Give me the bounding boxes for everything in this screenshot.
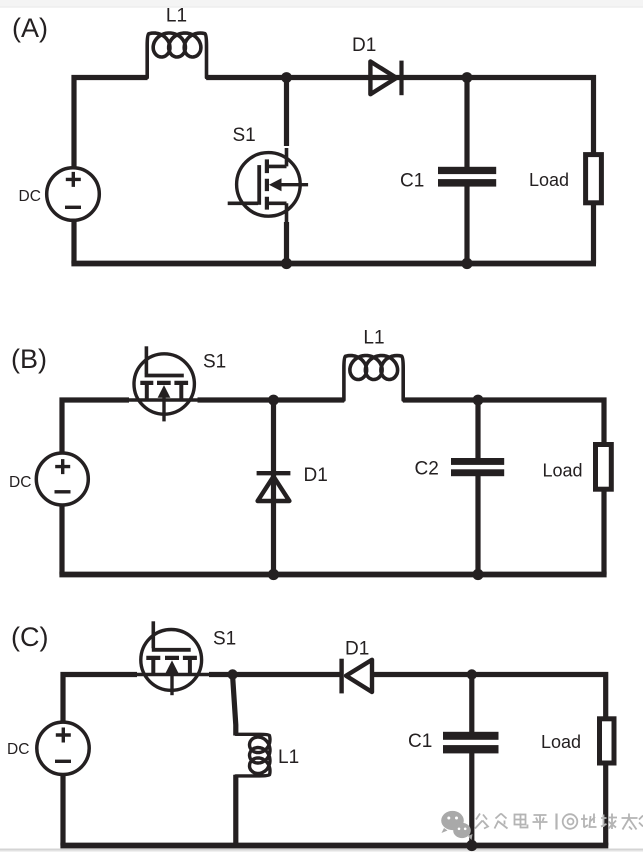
wire A top-left rail xyxy=(74,78,148,171)
svg-text:L1: L1 xyxy=(363,328,384,349)
wire B C2 bottom branch xyxy=(475,476,480,575)
svg-text:S1: S1 xyxy=(213,629,236,650)
S1A channel segments xyxy=(265,159,269,209)
svg-text:(B): (B) xyxy=(11,344,47,374)
S1B gate lead xyxy=(145,346,149,374)
svg-text:D1: D1 xyxy=(352,35,376,56)
S1C gate lead xyxy=(152,621,156,648)
svg-text:L1: L1 xyxy=(278,747,299,768)
node dots B xyxy=(268,395,484,581)
load resistor (C) xyxy=(600,719,615,763)
inductor L1 (B) xyxy=(344,356,403,401)
wire A C1 bottom branch xyxy=(464,187,469,264)
wire A bottom rail xyxy=(71,261,596,267)
transistor S1 (C) MOSFET xyxy=(137,621,211,695)
watermark wechat icon xyxy=(441,811,472,840)
S1C channel segments xyxy=(146,656,197,660)
transistor S1 (B) MOSFET xyxy=(125,346,200,421)
wire B top-left rail xyxy=(62,400,129,455)
transistor S1 (A) MOSFET xyxy=(228,148,308,222)
S1C wire chord xyxy=(137,673,211,677)
diode D1 (C) xyxy=(342,659,372,694)
DC source (C) xyxy=(37,722,89,774)
inductor L1 (A) xyxy=(147,33,206,78)
svg-text:D1: D1 xyxy=(345,639,369,660)
load resistor (B) xyxy=(596,445,612,490)
S1C body arrow xyxy=(170,669,173,695)
svg-text:D1: D1 xyxy=(304,465,328,486)
diode D1 (A) xyxy=(370,61,401,96)
wire C C1 top branch xyxy=(469,675,474,733)
wire B bottom rail xyxy=(59,572,606,578)
svg-text:DC: DC xyxy=(9,474,31,491)
wire A top wire inductor to right xyxy=(206,75,596,80)
labels A xyxy=(12,6,569,205)
S1A body arrow xyxy=(278,183,308,186)
wire A right rail xyxy=(591,75,596,264)
bottom page band xyxy=(0,849,643,851)
S1A gate bar xyxy=(257,165,261,205)
capacitor C1 (A) xyxy=(438,167,496,187)
S1B drain finger xyxy=(145,383,149,400)
top page band xyxy=(0,0,643,7)
svg-text:C2: C2 xyxy=(415,459,439,480)
wire C top wire D1 to right corner xyxy=(372,675,606,719)
load resistor (A) xyxy=(586,155,602,203)
svg-text:S1: S1 xyxy=(203,352,226,373)
S1A drain connection xyxy=(267,148,287,166)
wire A left rail lower xyxy=(71,218,76,264)
wire C bottom rail xyxy=(60,843,608,849)
S1B channel segments xyxy=(140,381,188,385)
D1A cathode bar xyxy=(399,61,403,96)
node dots C xyxy=(227,669,477,851)
wire C C1 bottom branch xyxy=(469,753,474,846)
svg-text:L1: L1 xyxy=(166,6,187,27)
svg-text:DC: DC xyxy=(7,741,29,758)
svg-text:Load: Load xyxy=(529,170,569,190)
svg-text:DC: DC xyxy=(19,188,41,205)
S1C gate bar xyxy=(152,648,191,652)
svg-text:C1: C1 xyxy=(408,731,432,752)
wire B C2 top branch xyxy=(475,400,480,459)
node dots A xyxy=(281,72,473,269)
wire C left rail lower xyxy=(60,773,65,846)
wire C L1 bottom branch xyxy=(233,775,238,846)
wire C L1 top branch slanted xyxy=(233,676,236,736)
svg-text:Load: Load xyxy=(543,461,583,481)
capacitor C1 (C) xyxy=(443,732,499,754)
S1C source finger xyxy=(188,658,192,675)
diode D1 (B) xyxy=(257,473,291,501)
inductor L1 (C) vertical xyxy=(236,734,270,776)
wire B top wire MOSFET to inductor xyxy=(198,397,345,402)
S1C drain finger xyxy=(151,658,155,675)
svg-text:S1: S1 xyxy=(233,125,256,146)
svg-text:Load: Load xyxy=(541,732,581,752)
S1A source connection xyxy=(267,203,287,222)
wire C right rail lower xyxy=(603,763,608,846)
S1B gate bar xyxy=(145,374,184,378)
S1A gate lead xyxy=(228,202,258,206)
S1B body arrow xyxy=(162,394,165,421)
capacitor C2 (B) xyxy=(451,458,504,476)
watermark text xyxy=(475,814,488,829)
svg-text:(C): (C) xyxy=(11,622,48,652)
S1B source finger xyxy=(179,383,183,400)
wire C top-left rail xyxy=(63,675,137,725)
DC source (B) xyxy=(36,453,88,505)
wire C top wire MOSFET to D1 xyxy=(209,672,340,677)
wire A S1 source branch xyxy=(284,222,289,264)
labels C xyxy=(7,622,581,768)
D1C cathode bar xyxy=(339,659,343,694)
svg-text:(A): (A) xyxy=(12,13,48,43)
wire A C1 top branch xyxy=(464,78,469,168)
wire B D1 branch xyxy=(271,400,276,575)
wire A S1 drain branch xyxy=(284,78,289,147)
S1B wire chord xyxy=(125,398,200,402)
D1B cathode bar xyxy=(257,471,291,475)
wire B left rail lower xyxy=(59,503,64,575)
svg-text:C1: C1 xyxy=(400,171,424,192)
labels B xyxy=(9,328,583,492)
DC source (A) xyxy=(47,168,100,221)
wire B top wire inductor to right corner xyxy=(403,400,604,444)
wire B right rail lower xyxy=(601,490,606,575)
